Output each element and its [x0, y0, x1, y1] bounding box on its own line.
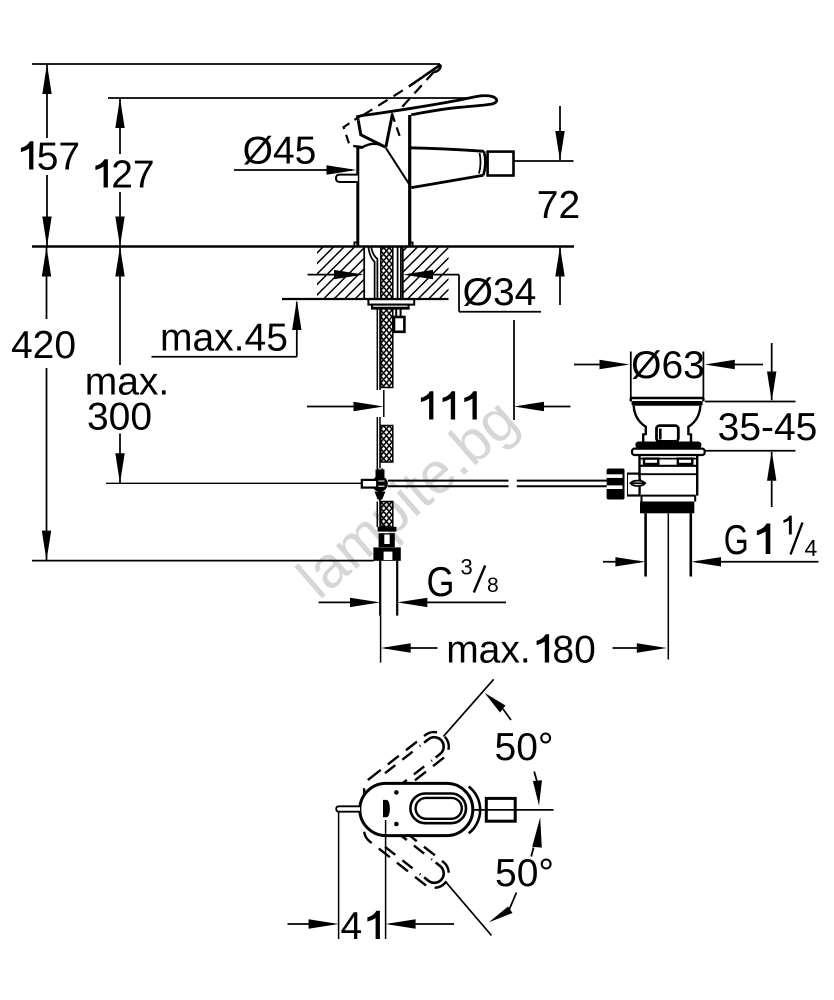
hose break core line: [383, 390, 385, 417]
braided hose segment 1: [381, 308, 393, 388]
cartridge dome arc: [362, 144, 386, 148]
handle solid outline: [358, 96, 497, 121]
ball joint neck: [378, 469, 383, 477]
dimension 72: [514, 106, 581, 305]
hose left pair segment 1: [377, 308, 380, 390]
dimension 35-45: [701, 343, 817, 507]
drain trumpet left profile: [634, 406, 646, 442]
plan 50 lower diagonal: [445, 881, 491, 935]
pull rod horizontal segment 2: [517, 481, 607, 487]
deck bottom line: [282, 298, 449, 300]
reference line top (157 level): [32, 63, 440, 65]
svg-text:Ø34: Ø34: [463, 271, 537, 314]
braided hose segment 3: [381, 502, 393, 528]
plan 50 lower arrowhead: [489, 907, 513, 923]
drain square knob: [657, 426, 679, 442]
dimension 41: [288, 812, 455, 948]
pop-up rod knob left of body: [336, 175, 358, 182]
G3/8 hex nut: [373, 547, 400, 560]
dimension G 1 1/4: [603, 516, 819, 567]
pull rod end piece: [362, 480, 377, 488]
aerator block: [488, 152, 514, 176]
svg-text:72: 72: [537, 184, 580, 227]
reference line 127 level: [108, 97, 474, 99]
plan angle tick upper: [534, 772, 537, 782]
dimension 157: [21, 64, 80, 247]
deck hole right edge: [402, 247, 404, 299]
handle neck left edge: [386, 115, 393, 148]
svg-text:50°: 50°: [495, 726, 554, 769]
drain lower dark band: [640, 502, 694, 514]
reference line max.300 bottom / pull rod line: [106, 482, 362, 484]
pull rod curve in hole: [368, 247, 377, 299]
dimension 111: [307, 320, 571, 420]
plan 50 upper arrowhead: [485, 693, 506, 713]
drain under-body sides: [642, 496, 696, 502]
svg-text:Ø63: Ø63: [631, 344, 705, 387]
drain collar lower band: [632, 449, 705, 455]
hose connector body: [379, 533, 395, 547]
rod neck below flange: [396, 308, 400, 317]
handle dashed lower edge: [398, 72, 434, 112]
faucet body right edge and neck right: [408, 115, 411, 247]
plan cartridge mark: [383, 800, 390, 817]
svg-text:Ø45: Ø45: [243, 130, 317, 173]
drain tail pipe: [646, 513, 691, 576]
svg-text:4: 4: [341, 905, 363, 948]
svg-text:G: G: [724, 516, 749, 563]
drain centerline: [667, 514, 669, 660]
drain body bottom line: [641, 495, 696, 497]
drain slot window right: [678, 459, 693, 464]
handle dashed upper edge: [363, 87, 409, 116]
G3/8 pipe: [380, 561, 397, 616]
spout tip inner arc: [479, 153, 481, 174]
drain body line 2: [640, 473, 698, 475]
svg-text:300: 300: [87, 396, 152, 439]
svg-text:50°: 50°: [495, 852, 554, 895]
dimension 127: [95, 98, 154, 247]
drain flange extension verticals: [631, 398, 704, 402]
plan body second right arc: [469, 787, 480, 834]
svg-text:max.45: max.45: [160, 317, 288, 360]
handle dashed neck: [392, 113, 401, 140]
svg-text:4: 4: [805, 535, 818, 561]
deck hatch right band: [403, 248, 449, 299]
svg-text:G: G: [427, 558, 455, 605]
drain slot window left: [644, 459, 658, 464]
plan alignment dots: [394, 790, 399, 795]
base step right: [410, 242, 413, 246]
handle dashed back: [344, 115, 366, 147]
base step left: [354, 242, 357, 246]
plan dashed lever upper outer: [358, 726, 454, 810]
reference line 420 bottom: [32, 560, 374, 562]
drain body line: [640, 465, 698, 467]
watermark: [285, 386, 530, 611]
svg-text:57: 57: [37, 136, 80, 179]
rod fitting: [394, 317, 404, 332]
svg-text:8: 8: [487, 574, 499, 597]
hole right thin pair: [398, 247, 401, 299]
dimension max.180: [381, 629, 667, 672]
braided hose segment 2: [381, 426, 393, 463]
plan lever oval outer: [410, 794, 466, 824]
plan faucet body: [360, 783, 473, 835]
svg-text:27: 27: [111, 154, 154, 197]
spout tip arc: [483, 151, 485, 175]
dimension 420: [11, 247, 76, 561]
dimension max.300: [85, 247, 170, 484]
braided hose in hole: [381, 247, 393, 299]
drain side port: [627, 474, 640, 496]
dimension max.45: [152, 300, 302, 360]
deck top line: [32, 245, 574, 247]
plan dashed lever lower outer: [358, 809, 454, 893]
drain flange dark band: [632, 401, 703, 406]
drain body upper: [640, 455, 698, 496]
spout bottom edge: [412, 175, 484, 187]
drain pivot ellipse: [631, 481, 644, 486]
pull rod horizontal segment 1: [388, 481, 509, 487]
svg-text:420: 420: [11, 324, 76, 367]
deck hatch left band: [317, 248, 364, 299]
deck hole left edge: [363, 247, 365, 299]
svg-text:80: 80: [552, 629, 595, 672]
mounting flange: [368, 299, 414, 304]
dimension diameter 34: [308, 270, 541, 314]
mounting nut: [372, 305, 409, 308]
ball joint lower wedge: [375, 492, 386, 500]
faucet body top left stub: [356, 146, 363, 149]
plan aerator square: [486, 798, 515, 821]
faucet body left edge: [356, 148, 359, 247]
drain collar dark: [635, 442, 701, 449]
svg-text:35-45: 35-45: [718, 406, 818, 449]
rod below ball: [379, 500, 381, 502]
plan centerline: [474, 809, 554, 811]
dimension diameter 63: [574, 344, 763, 398]
body interior diagonal: [386, 148, 411, 187]
svg-text:3: 3: [461, 555, 473, 580]
handle chin: [358, 121, 386, 148]
dimension G 3/8: [319, 555, 506, 608]
drain knurled knob: [607, 469, 625, 500]
plan lever oval inner: [416, 798, 462, 819]
plan angle tick lower: [531, 848, 533, 857]
plan 50 upper diagonal: [443, 679, 493, 736]
plan pop-up rod: [336, 806, 360, 811]
hose left pair segment 2: [377, 417, 380, 469]
handle dashed tip solid part: [409, 65, 441, 86]
hose collar: [378, 527, 397, 532]
pipe centerline extension: [380, 616, 382, 663]
dimension diameter 45 leader: [234, 130, 357, 175]
hose left pair segment 3: [377, 502, 380, 528]
ball joint: [372, 476, 388, 492]
drain trumpet right profile: [688, 406, 700, 442]
spout top edge: [410, 148, 484, 152]
svg-text:max.: max.: [446, 629, 531, 672]
